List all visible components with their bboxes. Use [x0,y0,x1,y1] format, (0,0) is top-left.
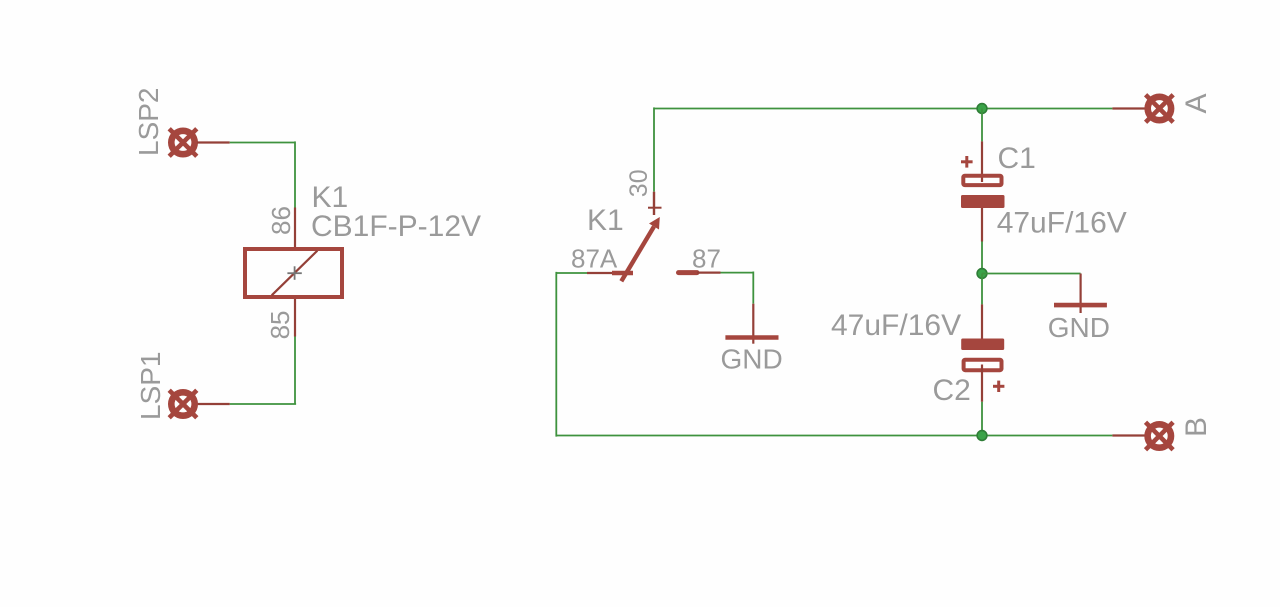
wire 87A left (vertical) [555,272,557,437]
plus sign C1 [961,156,973,168]
svg-text:47uF/16V: 47uF/16V [831,309,961,342]
relay switch K1 pin 30 [648,192,662,215]
wire 87 to GND (horizontal) [721,272,754,274]
svg-text:87: 87 [692,243,721,273]
wire C2 to node B [981,402,983,436]
svg-text:B: B [1180,417,1213,437]
svg-text:A: A [1180,93,1213,113]
svg-text:LSP2: LSP2 [133,88,164,157]
wire LSP2 to K1 coil (horizontal) [230,142,295,144]
pad LSP2 [169,129,197,157]
svg-text:30: 30 [625,169,653,197]
capacitor C1 negative plate (filled) [961,195,1005,208]
capacitor C2 negative plate (filled) [961,339,1004,351]
svg-text:C1: C1 [998,142,1036,175]
wire 87 to GND (vertical) [752,272,754,304]
junction node B [977,431,987,441]
svg-text:C2: C2 [933,374,971,407]
relay switch K1 pin 87A [587,272,633,274]
svg-text:K1: K1 [312,181,349,214]
capacitor C1 positive plate (hollow) [963,176,1001,185]
wire K1 coil to LSP1 (vertical) [294,337,296,405]
svg-text:CB1F-P-12V: CB1F-P-12V [311,210,481,243]
svg-text:85: 85 [265,310,295,339]
svg-text:GND: GND [721,343,783,374]
pad LSP1 [169,390,197,418]
pad B [1146,422,1174,450]
svg-text:GND: GND [1048,312,1110,343]
wire junction to C2 [981,274,983,305]
ground symbol GND (left) [725,304,778,344]
svg-text:47uF/16V: 47uF/16V [997,206,1127,239]
svg-text:87A: 87A [571,243,618,273]
capacitor C2 pin + [981,365,983,402]
svg-text:86: 86 [266,206,296,235]
pad A [1146,95,1174,123]
wire K1 coil to LSP1 (horizontal) [230,403,296,405]
relay coil K1 pin 86 [294,208,296,248]
junction node between C1 and C2 [977,269,987,279]
wire C1 to junction [981,242,983,274]
wire top rail (horizontal, node A) [654,108,1112,110]
relay switch K1 arm with arrowhead [621,217,660,281]
relay coil K1 body [245,249,342,297]
capacitor C2 pin - [981,304,983,338]
pin of pad LSP1 [197,403,230,405]
svg-text:K1: K1 [587,204,624,237]
wire 87A left (horizontal) [556,272,587,274]
capacitor C1 pin + [981,141,983,182]
wire node A to C1 [981,109,983,142]
wire bottom rail (horizontal, node B) [556,435,1112,437]
plus sign C2 [993,381,1004,392]
svg-text:LSP1: LSP1 [135,352,166,421]
pin of pad B [1112,434,1146,436]
relay switch K1 pin 87 [679,270,721,275]
wire LSP2 to K1 coil (vertical) [294,141,296,207]
junction node A [977,104,987,114]
wire top rail down to switch pin 30 [653,107,655,191]
wire junction to GND (horizontal) [982,273,1081,275]
capacitor C1 pin - [981,208,983,242]
relay coil K1 pin 85 [294,299,296,337]
ground symbol GND (right) [1054,274,1107,314]
capacitor C2 positive plate (hollow) [964,360,1002,371]
pin of pad LSP2 [197,141,230,143]
origin cross of K1 coil [287,266,301,280]
pin of pad A [1112,107,1146,109]
